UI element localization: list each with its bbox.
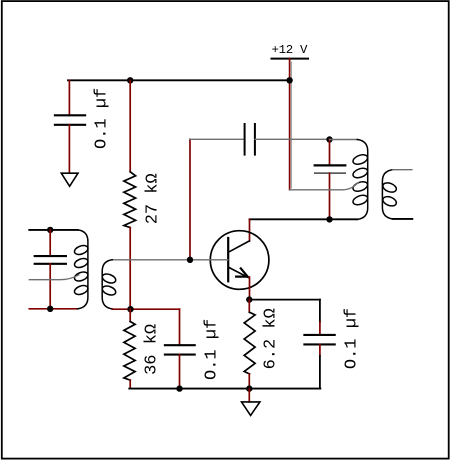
wire center tap left input [29,275,79,280]
wire left input top [29,229,78,231]
power supply bar [272,58,309,60]
capacitor C4 bottom lead [179,355,181,389]
resistor R1 top lead [129,80,131,172]
svg-text:27 kΩ: 27 kΩ [143,173,162,224]
wire bottom rail [129,388,320,390]
svg-text:+12 V: +12 V [272,43,309,57]
ground G2 [242,402,260,416]
wire L3 bottom stub [393,218,413,220]
capacitor C3 tank plates [315,164,346,166]
ground G1 [61,173,78,186]
resistor R1 bottom lead [129,228,131,310]
node base junction [187,257,193,263]
wire divider node (L4 bottom to C4) [112,308,179,310]
node left tank top [47,227,53,233]
svg-text:O.1 µf: O.1 µf [343,308,362,369]
node divider junction [127,306,133,312]
transistor Q1 emitter line [229,268,248,278]
node left tank bottom [47,306,53,312]
resistor R2 bottom lead [129,380,131,389]
capacitor C6 left tank top lead [49,230,51,256]
svg-text:6.2 kΩ: 6.2 kΩ [262,308,281,369]
node junction top-left (R1 top) [127,77,133,83]
wire +12V stem (red) [289,59,291,190]
capacitor C6 left tank plates [35,256,66,264]
resistor R2 top lead [129,309,131,321]
inductor L2 primary right transformer [352,140,369,220]
capacitor C2 feedback plates [245,124,255,155]
inductor L4 secondary left transformer [101,260,117,309]
transistor Q1 collector line [230,241,250,252]
node junction +12V [286,77,292,83]
capacitor C5 bottom lead [319,344,321,356]
wire feedback horizontal right [255,138,330,140]
node tank top [326,136,332,142]
node rail C4 junction [176,385,182,391]
wire emitter to C5 top [249,299,320,301]
node rail ground junction [246,385,252,391]
resistor R3 6.2k zigzag [244,312,255,374]
resistor R2 36k zigzag [124,322,135,381]
capacitor C1 top lead [68,80,70,115]
wire feedback vertical (base to cap C2) [189,139,191,259]
node emitter junction [246,296,252,302]
wire tank top to coil [330,139,358,141]
capacitor C4 plates [165,345,195,354]
resistor R3 top lead [248,300,250,313]
capacitor C1 plates 0.1uf [55,115,85,125]
ground G2 lead [248,389,250,402]
capacitor C6 left tank bottom lead [49,264,51,309]
capacitor C4 top lead [179,309,181,345]
transistor Q1 collector stem [249,219,251,241]
wire base [112,259,228,261]
wire center tap (+12V to L2) [290,183,359,190]
node tank bottom [326,216,332,222]
svg-text:36 kΩ: 36 kΩ [142,324,161,375]
transistor Q1 base bar [227,238,229,281]
wire collector to tank bottom [250,218,358,220]
capacitor C5 plates [304,335,334,345]
inductor L3 secondary right transformer [382,170,398,219]
resistor R1 27k zigzag [124,172,136,228]
transistor Q1 emitter stem [249,277,251,300]
wire L3 top stub [393,169,412,171]
wire left input bottom [29,308,78,310]
transistor Q1 circle [210,231,269,290]
resistor R3 bottom lead [248,374,250,389]
transistor Q1 emitter arrow [236,268,247,276]
capacitor C1 bottom lead [68,125,70,173]
capacitor C3 bottom lead [329,173,331,219]
svg-text:O.1 µf: O.1 µf [202,319,221,380]
capacitor C5 top lead [319,300,321,322]
capacitor C3 top lead [329,140,331,166]
inductor L1 primary left transformer [73,230,89,309]
wire feedback horizontal left [190,138,245,140]
svg-text:O.1 µf: O.1 µf [93,88,112,149]
wire top rail [68,79,290,81]
